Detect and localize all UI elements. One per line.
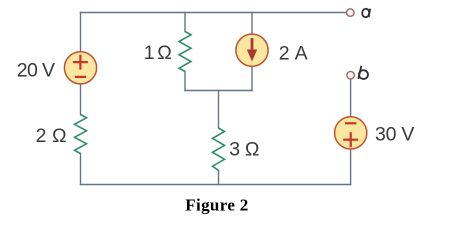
- label terminal a (hand-drawn italic single-storey a): [362, 8, 370, 17]
- svg-text:30 V: 30 V: [375, 124, 414, 146]
- resistor R2 2ohm zigzag: [75, 115, 87, 154]
- terminal a open circle: [347, 9, 355, 17]
- wire right vertical from terminal b to 30V source: [350, 79, 352, 120]
- svg-text:1 Ω: 1 Ω: [144, 42, 172, 64]
- wire left vertical lower (below 2-ohm resistor): [80, 154, 82, 185]
- svg-text:20 V: 20 V: [17, 59, 55, 81]
- wire bottom horizontal: [81, 184, 351, 186]
- voltage source V1 20V circle: [64, 52, 96, 84]
- svg-text:3 Ω: 3 Ω: [229, 138, 259, 160]
- wire right vertical from 30V source to bottom: [350, 146, 352, 185]
- resistor R1 1ohm zigzag: [179, 32, 191, 72]
- V2 plus sign: [343, 132, 358, 147]
- wire 2A branch (through current source position): [251, 13, 253, 91]
- wire middle horizontal (joins 1-ohm and 2A branches): [185, 90, 252, 92]
- svg-text:2 A: 2 A: [279, 42, 308, 64]
- wire top horizontal (node to terminal a): [81, 12, 347, 14]
- wire 3-ohm branch lower: [218, 171, 220, 185]
- wire left vertical upper (through 20V source position): [80, 13, 82, 115]
- wire 3-ohm branch upper: [218, 91, 220, 129]
- svg-text:Figure 2: Figure 2: [185, 195, 248, 214]
- V1 plus sign: [73, 55, 88, 70]
- voltage source V2 30V circle: [335, 117, 367, 149]
- I1 arrow (downward): [251, 38, 254, 51]
- label terminal b (hand-drawn italic b): [358, 66, 368, 80]
- svg-text:2 Ω: 2 Ω: [36, 125, 67, 147]
- V1 minus sign: [75, 76, 86, 78]
- V2 minus sign: [345, 122, 356, 124]
- wire 1-ohm branch upper: [184, 13, 186, 32]
- terminal b open circle: [347, 71, 355, 79]
- resistor R3 3ohm zigzag: [213, 128, 225, 171]
- current source I1 2A circle: [236, 34, 268, 66]
- wire 1-ohm branch lower: [184, 72, 186, 91]
